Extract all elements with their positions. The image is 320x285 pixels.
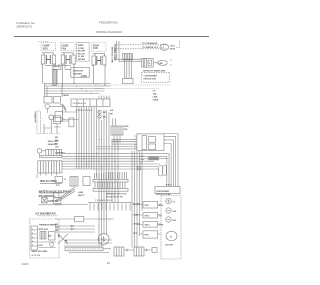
svg-text:ICE: ICE bbox=[159, 216, 163, 218]
svg-text:COND: COND bbox=[62, 46, 69, 48]
svg-text:OR BR: OR BR bbox=[78, 59, 85, 61]
svg-text:BK: BK bbox=[55, 137, 59, 139]
svg-text:LINE: LINE bbox=[153, 97, 158, 99]
svg-text:FUSE: FUSE bbox=[153, 100, 159, 102]
svg-text:DISPENSER: DISPENSER bbox=[157, 191, 170, 193]
svg-text:OR BR GY PK TN: OR BR GY PK TN bbox=[106, 196, 123, 198]
svg-text:MOTOR: MOTOR bbox=[47, 213, 56, 215]
svg-text:DEFROST: DEFROST bbox=[73, 71, 84, 73]
svg-text:SW 2: SW 2 bbox=[145, 216, 151, 218]
svg-text:HEATER: HEATER bbox=[73, 72, 82, 75]
svg-text:MTR HTR: MTR HTR bbox=[39, 229, 49, 231]
svg-text:WIRE: WIRE bbox=[78, 45, 84, 47]
svg-text:COMP: COMP bbox=[43, 46, 50, 48]
svg-text:BK WH: BK WH bbox=[78, 51, 86, 53]
svg-text:3: 3 bbox=[32, 237, 33, 239]
svg-text:440W: 440W bbox=[81, 75, 88, 78]
svg-text:LINE: LINE bbox=[78, 192, 84, 194]
svg-text:SW: SW bbox=[110, 110, 113, 112]
svg-text:CRUSH: CRUSH bbox=[133, 224, 140, 226]
svg-text:GN: GN bbox=[55, 147, 59, 149]
svg-text:HLD: HLD bbox=[39, 245, 44, 247]
svg-text:TO WATER VLV: TO WATER VLV bbox=[142, 46, 159, 49]
svg-text:TO: TO bbox=[153, 91, 156, 93]
svg-text:GND: GND bbox=[124, 126, 129, 128]
svg-text:NEUT: NEUT bbox=[78, 195, 85, 197]
svg-text:SW 1: SW 1 bbox=[145, 205, 151, 207]
svg-text:24/04: 24/04 bbox=[22, 262, 29, 266]
svg-text:CONDENSER: CONDENSER bbox=[144, 76, 158, 78]
svg-text:SW: SW bbox=[48, 236, 51, 238]
svg-text:CUBE: CUBE bbox=[133, 215, 139, 217]
svg-text:FRS26ZRGW1: FRS26ZRGW1 bbox=[99, 21, 118, 25]
svg-text:YL BU: YL BU bbox=[78, 56, 85, 58]
svg-text:15A: 15A bbox=[153, 93, 157, 96]
svg-text:5: 5 bbox=[32, 245, 33, 247]
svg-text:5995432472: 5995432472 bbox=[17, 25, 33, 29]
svg-text:WIRING DIAGRAM: WIRING DIAGRAM bbox=[96, 30, 123, 34]
svg-text:AUGER: AUGER bbox=[133, 203, 140, 206]
svg-text:BK: BK bbox=[55, 224, 59, 226]
svg-text:4 3 2 1 N: 4 3 2 1 N bbox=[32, 254, 41, 257]
svg-text:WH: WH bbox=[55, 227, 59, 229]
svg-text:GN: GN bbox=[55, 230, 59, 232]
svg-text:FAN: FAN bbox=[62, 47, 67, 50]
svg-text:WH: WH bbox=[55, 140, 59, 142]
svg-text:FAN MOTOR: FAN MOTOR bbox=[144, 78, 157, 81]
svg-text:22: 22 bbox=[107, 261, 111, 265]
svg-text:MOTOR: MOTOR bbox=[166, 245, 174, 247]
svg-text:HTR: HTR bbox=[145, 234, 150, 236]
svg-text:TERM: TERM bbox=[62, 95, 68, 97]
svg-text:115V: 115V bbox=[170, 46, 176, 48]
svg-text:CODE: CODE bbox=[78, 48, 85, 50]
svg-text:SW: SW bbox=[173, 211, 176, 213]
svg-text:WTR ICE CUBE: WTR ICE CUBE bbox=[156, 194, 171, 196]
svg-text:SW 3: SW 3 bbox=[145, 225, 151, 227]
svg-text:SERVICE CORD: SERVICE CORD bbox=[111, 47, 113, 64]
svg-text:WTR: WTR bbox=[133, 233, 138, 235]
svg-text:SHUT OFF ARM: SHUT OFF ARM bbox=[32, 250, 48, 253]
svg-text:RD: RD bbox=[55, 143, 59, 145]
svg-text:2: 2 bbox=[32, 233, 33, 235]
svg-text:SW: SW bbox=[173, 220, 176, 222]
svg-text:415V: 415V bbox=[43, 47, 49, 50]
svg-text:RD GN: RD GN bbox=[78, 53, 85, 55]
svg-text:DEFROST TIMER ASM: DEFROST TIMER ASM bbox=[143, 70, 165, 73]
svg-text:CABINET: CABINET bbox=[55, 151, 65, 154]
svg-text:LMP: LMP bbox=[159, 63, 164, 65]
svg-text:WH: WH bbox=[124, 129, 128, 131]
svg-text:EVAP: EVAP bbox=[93, 44, 100, 47]
svg-text:1 2 3 4 5 6 7 8: 1 2 3 4 5 6 7 8 bbox=[73, 102, 87, 105]
svg-text:TO ICEMAKER: TO ICEMAKER bbox=[142, 42, 158, 45]
svg-text:1 2 3 4 5 6 7 8 9 10: 1 2 3 4 5 6 7 8 9 10 bbox=[95, 199, 113, 202]
svg-text:FAN: FAN bbox=[93, 47, 98, 50]
svg-text:1: 1 bbox=[32, 229, 33, 231]
svg-text:60HZ: 60HZ bbox=[170, 49, 176, 51]
svg-text:DRAIN HTR: DRAIN HTR bbox=[34, 112, 37, 124]
svg-text:MOLD HTR: MOLD HTR bbox=[40, 179, 54, 183]
svg-text:BK WH RD GN YL BU: BK WH RD GN YL BU bbox=[106, 194, 127, 196]
svg-text:M: M bbox=[170, 237, 172, 239]
svg-text:B W O: B W O bbox=[166, 185, 172, 187]
